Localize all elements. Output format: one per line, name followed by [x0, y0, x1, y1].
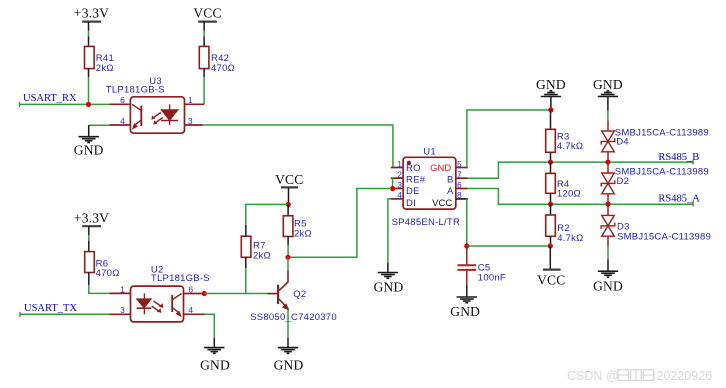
svg-text:6: 6: [120, 95, 125, 105]
svg-text:4.7kΩ: 4.7kΩ: [557, 233, 583, 244]
TVS diode D4 SMBJ15CA: [601, 121, 709, 162]
svg-text:1: 1: [120, 284, 125, 294]
svg-text:7: 7: [457, 170, 462, 180]
U2 pin 3: [109, 313, 131, 315]
svg-text:4: 4: [397, 190, 402, 200]
svg-text:SMBJ15CA-C113989: SMBJ15CA-C113989: [615, 128, 709, 139]
junction node VCC/C5: [464, 243, 469, 248]
wire U2 pin6 to Q2 base: [204, 293, 267, 295]
svg-text:3: 3: [188, 116, 193, 126]
svg-text:8: 8: [457, 190, 462, 200]
junction node B/R3R4: [548, 160, 553, 165]
U2 light arrows: [152, 301, 162, 312]
wire RE# to DE: [392, 178, 394, 188]
U2 pin 6: [183, 293, 204, 295]
svg-text:Q2: Q2: [293, 289, 306, 300]
wire U1 pin5 to GND rail: [467, 110, 551, 168]
svg-text:2kΩ: 2kΩ: [253, 251, 271, 262]
resistor R41 2k: [85, 46, 114, 73]
U3 pin 4: [110, 124, 132, 126]
U3 pin 6: [110, 103, 132, 105]
wire U2 pin4 to gnd: [205, 314, 215, 337]
wire U1 pin8 VCC down: [466, 199, 468, 246]
svg-text:20220926: 20220926: [657, 369, 713, 383]
svg-text:VCC: VCC: [432, 198, 452, 209]
svg-text:+3.3V: +3.3V: [74, 5, 109, 20]
wire Q2 collector to DE: [288, 189, 391, 258]
IC U1 SP485EN-L/TR: [391, 146, 468, 228]
resistor R5 2k: [283, 204, 312, 257]
U3 light arrows: [153, 113, 163, 124]
svg-text:B: B: [447, 175, 454, 186]
svg-text:VCC: VCC: [193, 5, 221, 20]
svg-text:6: 6: [188, 284, 193, 294]
junction node B/D4: [605, 160, 610, 165]
svg-text:470Ω: 470Ω: [96, 268, 120, 279]
junction node RX: [86, 102, 91, 107]
svg-text:1: 1: [188, 95, 193, 105]
svg-text:D4: D4: [616, 137, 629, 148]
junction node DE: [390, 186, 395, 191]
svg-text:100nF: 100nF: [478, 272, 506, 283]
wire VCC to R42: [203, 31, 205, 47]
wire U3 pin3 to U1 pin1: [203, 125, 393, 168]
power +3.3V (lower): [74, 211, 109, 235]
svg-text:5: 5: [457, 159, 462, 169]
svg-text:GND: GND: [593, 278, 623, 293]
wire R7 to base net: [245, 257, 247, 293]
svg-text:DI: DI: [406, 198, 416, 209]
wire R41 to node RX: [88, 69, 90, 105]
U1 pin 1 RO: [391, 167, 403, 169]
svg-text:GND: GND: [450, 304, 480, 319]
U3 pin 3: [184, 124, 203, 126]
U2 phototransistor: [171, 295, 173, 312]
ground (Q2 emitter): [274, 338, 304, 373]
svg-text:USART_RX: USART_RX: [23, 93, 77, 104]
wire R6 to U2 pin1: [89, 273, 110, 294]
junction node U2 pin6: [202, 291, 207, 296]
U2 LED: [143, 293, 145, 299]
power +3.3V (top): [74, 5, 109, 30]
svg-text:VCC: VCC: [275, 172, 303, 187]
wire USART_RX: [20, 102, 110, 107]
svg-text:GND: GND: [200, 358, 230, 373]
junction node VCC/R2: [548, 243, 553, 248]
U2 pin 4: [183, 313, 205, 315]
U3 pin 1: [184, 103, 204, 105]
U1 pin 2 RE#: [391, 177, 403, 179]
svg-text:+3.3V: +3.3V: [74, 211, 109, 226]
svg-text:GND: GND: [374, 279, 404, 294]
svg-text:U1: U1: [423, 146, 436, 157]
optocoupler U2 TLP181GB-S: [109, 265, 210, 322]
TVS diode D3 SMBJ15CA: [601, 204, 711, 246]
U1 pin 7 B: [456, 177, 468, 179]
svg-text:CSDN @: CSDN @: [567, 369, 619, 383]
wire net B: [468, 160, 693, 178]
power VCC (below R2): [537, 246, 565, 287]
wire USART_TX: [20, 312, 109, 317]
svg-text:RO: RO: [406, 163, 421, 174]
power VCC (top): [193, 5, 221, 30]
svg-text:RE#: RE#: [406, 175, 426, 186]
power VCC (middle): [275, 172, 303, 205]
junction node GND rail: [548, 107, 553, 112]
svg-text:4: 4: [120, 116, 125, 126]
svg-text:3: 3: [397, 180, 402, 190]
wire +3.3V to R41: [88, 31, 90, 47]
ground (U2 pin4): [200, 338, 230, 373]
wire D3 to gnd: [607, 247, 609, 260]
U1 pin 8 VCC: [456, 198, 468, 200]
U3 phototransistor: [140, 106, 142, 127]
junction node Q2 collector: [285, 255, 290, 260]
U1 pin 4 DI: [391, 198, 403, 200]
svg-text:A: A: [447, 186, 454, 197]
U1 pin 6 A: [456, 188, 468, 190]
ground (top, D4 rail): [593, 77, 623, 110]
svg-text:GND: GND: [274, 358, 304, 373]
svg-text:6: 6: [457, 180, 462, 190]
transistor Q2 SS8050: [250, 271, 337, 323]
svg-text:2: 2: [397, 170, 402, 180]
svg-text:4.7kΩ: 4.7kΩ: [557, 141, 583, 152]
svg-text:120Ω: 120Ω: [557, 188, 581, 199]
wire collector: [287, 257, 289, 270]
svg-text:SS8050_C7420370: SS8050_C7420370: [250, 312, 337, 323]
resistor R42 470: [199, 46, 235, 73]
svg-text:RS485_B: RS485_B: [658, 152, 699, 163]
optocoupler U3 TLP181GB-S: [106, 76, 204, 133]
svg-text:GND: GND: [74, 143, 104, 158]
svg-text:TLP181GB-S: TLP181GB-S: [106, 85, 165, 96]
junction node VCC/R5/R7: [286, 202, 291, 207]
ground (C5): [450, 286, 480, 319]
wire VCC to R7: [246, 204, 288, 236]
resistor R2 4.7k: [546, 204, 584, 246]
svg-text:3: 3: [120, 305, 125, 315]
svg-text:DE: DE: [406, 186, 420, 197]
TVS diode D2 SMBJ15CA: [601, 162, 709, 204]
capacitor C5 100nF: [457, 246, 506, 286]
resistor R3 4.7k: [546, 110, 584, 162]
svg-text:TLP181GB-S: TLP181GB-S: [151, 273, 210, 284]
svg-text:RS485_A: RS485_A: [658, 194, 700, 205]
wire net A: [468, 189, 693, 207]
svg-text:2kΩ: 2kΩ: [294, 229, 312, 240]
resistor R7 2k: [241, 236, 271, 261]
svg-text:SMBJ15CA-C113989: SMBJ15CA-C113989: [617, 231, 711, 242]
wire VCC net to R2: [467, 245, 551, 247]
wire DI to ground: [388, 199, 391, 263]
resistor R6 470: [85, 252, 120, 280]
svg-text:2kΩ: 2kΩ: [96, 63, 114, 74]
svg-text:USART_TX: USART_TX: [24, 303, 77, 314]
wire Q2 emitter to gnd: [287, 309, 289, 337]
resistor R4 120: [546, 162, 581, 204]
svg-text:SP485EN-L/TR: SP485EN-L/TR: [392, 217, 460, 228]
junction node A/R4R2: [548, 202, 553, 207]
U1 pin 3 DE: [391, 188, 403, 190]
ground (USART_RX side): [74, 125, 104, 157]
wire gnd to D4: [607, 111, 609, 122]
svg-text:470Ω: 470Ω: [211, 63, 235, 74]
U3 LED: [169, 104, 171, 110]
ground (DI): [374, 263, 404, 295]
ground (top, R3 rail): [536, 77, 566, 110]
wire R42 to U3 pin1: [203, 69, 205, 105]
ground (D3): [593, 260, 623, 294]
svg-text:4: 4: [188, 305, 193, 315]
junction node A/D3: [605, 202, 610, 207]
svg-text:D2: D2: [617, 176, 630, 187]
svg-text:VCC: VCC: [537, 272, 565, 287]
U1 pin 5 GND: [456, 167, 468, 169]
wire U3 pin4 to gnd: [89, 124, 110, 126]
svg-text:GND: GND: [430, 163, 451, 174]
U2 pin 1: [109, 292, 131, 294]
wire +3.3V to R6: [88, 235, 90, 252]
svg-text:1: 1: [397, 159, 402, 169]
